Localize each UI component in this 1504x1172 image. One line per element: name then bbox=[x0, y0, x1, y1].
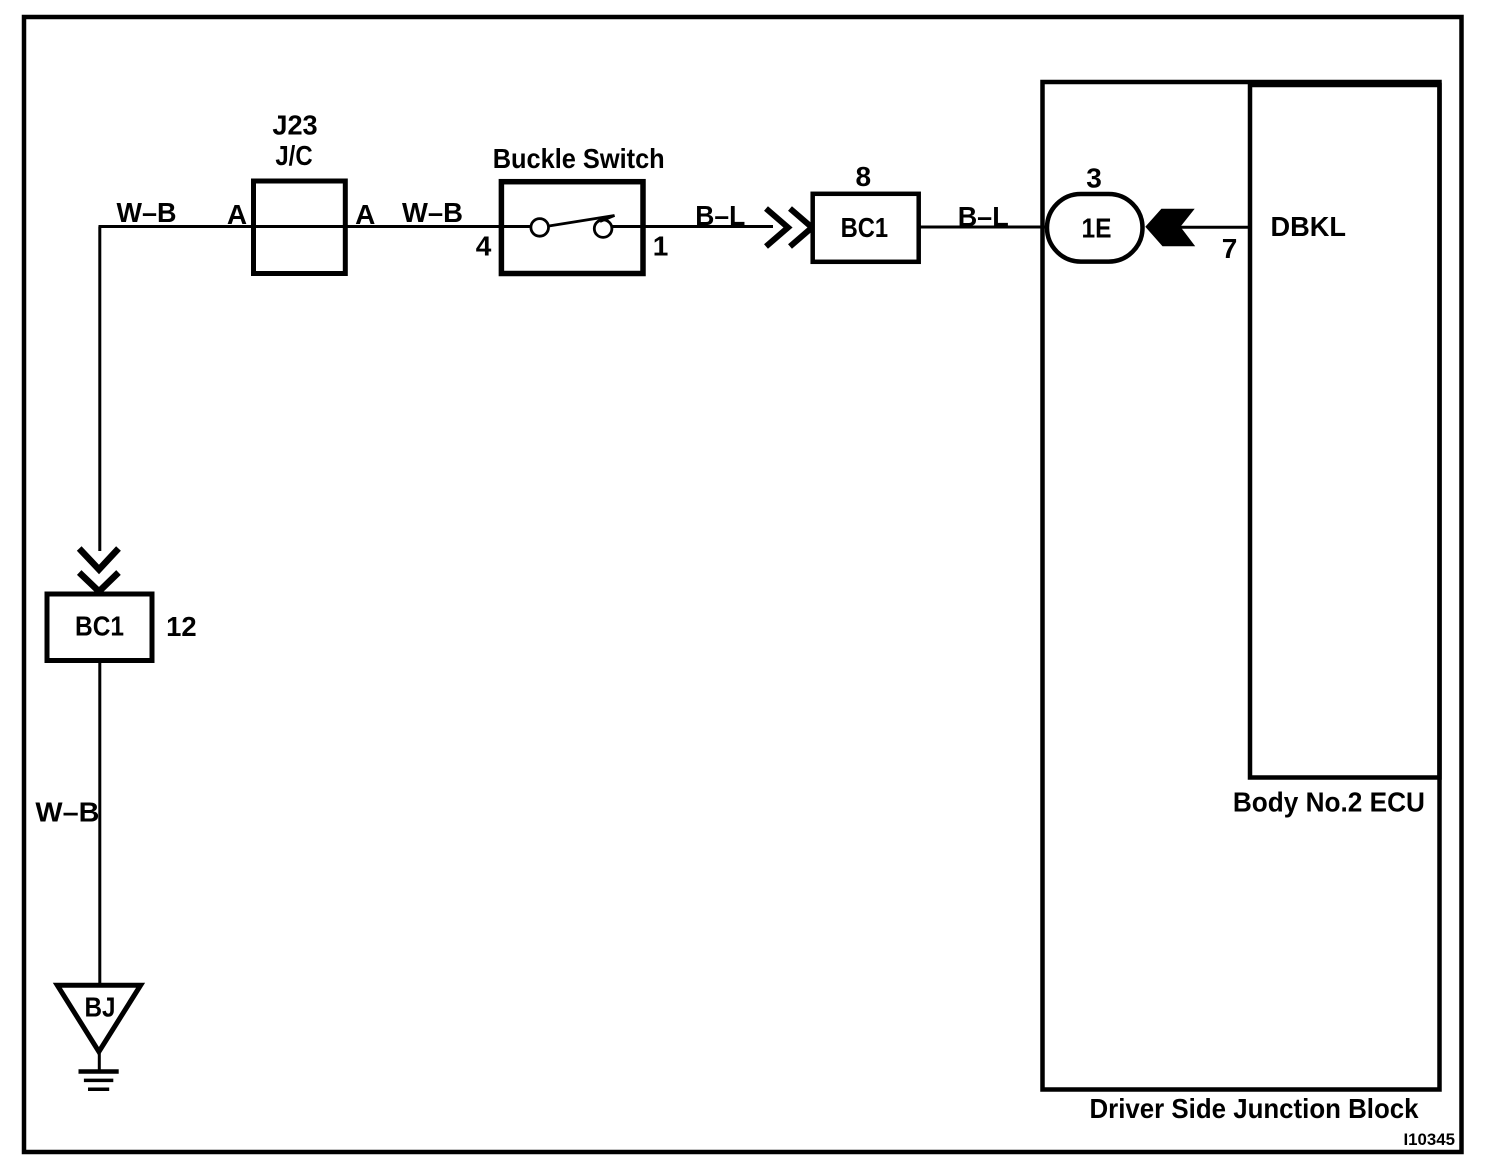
svg-text:Buckle Switch: Buckle Switch bbox=[493, 143, 665, 174]
svg-text:I10345: I10345 bbox=[1404, 1130, 1456, 1149]
arrow into junction block bbox=[1145, 209, 1195, 247]
connector arrow chevron 1 bbox=[766, 209, 788, 247]
wire arrow chevron down 1 bbox=[79, 549, 118, 570]
svg-text:BJ: BJ bbox=[85, 992, 116, 1023]
buckle switch box bbox=[501, 182, 643, 274]
connector BC1 top box bbox=[813, 194, 919, 262]
svg-text:7: 7 bbox=[1222, 233, 1238, 264]
svg-text:12: 12 bbox=[166, 611, 197, 642]
ECU box Body No.2 ECU bbox=[1250, 85, 1440, 778]
svg-text:1E: 1E bbox=[1082, 213, 1112, 244]
wire stub to ground bbox=[98, 1052, 101, 1070]
switch contact left bbox=[531, 219, 549, 237]
svg-text:J/C: J/C bbox=[275, 140, 312, 171]
svg-text:A: A bbox=[227, 199, 247, 230]
wire arrow chevron down 2 bbox=[79, 573, 118, 592]
wire B-L from BC1 to 1E oval bbox=[919, 226, 1047, 229]
svg-text:BC1: BC1 bbox=[841, 212, 889, 243]
svg-text:A: A bbox=[355, 199, 375, 230]
svg-text:3: 3 bbox=[1086, 163, 1102, 194]
switch blade bbox=[549, 216, 615, 227]
svg-text:J23: J23 bbox=[272, 110, 317, 141]
svg-text:W–B: W–B bbox=[402, 197, 463, 228]
svg-text:B–L: B–L bbox=[958, 201, 1009, 232]
ground symbol bar 3 bbox=[88, 1087, 109, 1091]
svg-text:4: 4 bbox=[476, 231, 492, 262]
svg-text:W–B: W–B bbox=[35, 796, 99, 827]
wire W-B from BC1 down to BJ bbox=[98, 661, 101, 986]
connector BC1 left box bbox=[47, 594, 152, 661]
svg-text:1: 1 bbox=[653, 231, 669, 262]
connector 1E oval bbox=[1047, 194, 1143, 262]
svg-text:DBKL: DBKL bbox=[1270, 211, 1346, 242]
svg-text:Body No.2 ECU: Body No.2 ECU bbox=[1233, 786, 1425, 817]
svg-text:8: 8 bbox=[856, 161, 872, 192]
switch contact right bbox=[594, 220, 612, 238]
svg-text:Driver Side Junction Block: Driver Side Junction Block bbox=[1090, 1093, 1419, 1124]
junction connector J23 box bbox=[254, 181, 346, 274]
ground symbol bar 1 bbox=[79, 1069, 119, 1074]
wire W-B horizontal from corner through J23 to buckle switch bbox=[99, 225, 534, 228]
svg-text:B–L: B–L bbox=[695, 200, 745, 231]
wire B-L from switch to connector arrows bbox=[611, 225, 773, 228]
wire from arrow to ECU pin 7 bbox=[1180, 226, 1250, 229]
wire W-B vertical left bbox=[98, 227, 101, 552]
svg-text:BC1: BC1 bbox=[75, 611, 124, 642]
svg-text:W–B: W–B bbox=[117, 197, 177, 228]
ground symbol bar 2 bbox=[84, 1079, 113, 1083]
ground BJ triangle bbox=[57, 985, 140, 1051]
junction block Driver Side Junction Block bbox=[1043, 82, 1440, 1090]
connector arrow chevron 2 bbox=[790, 209, 812, 247]
